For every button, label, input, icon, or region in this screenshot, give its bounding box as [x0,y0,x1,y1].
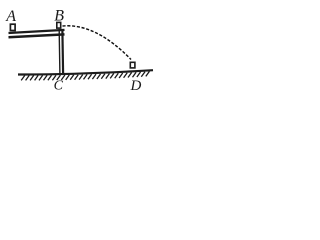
ground line [18,70,153,74]
block at A [10,24,15,30]
svg-text:A: A [5,8,16,25]
svg-text:C: C [54,78,64,93]
table top upper line [9,30,65,33]
table top lower line [9,34,65,37]
ground hatching [21,75,25,80]
block at D [130,62,135,68]
table leg right line [61,31,64,74]
trajectory (dashed parabola B to D) [63,26,132,60]
block at B [57,22,61,28]
table leg left line [58,31,61,74]
svg-text:D: D [130,78,142,94]
